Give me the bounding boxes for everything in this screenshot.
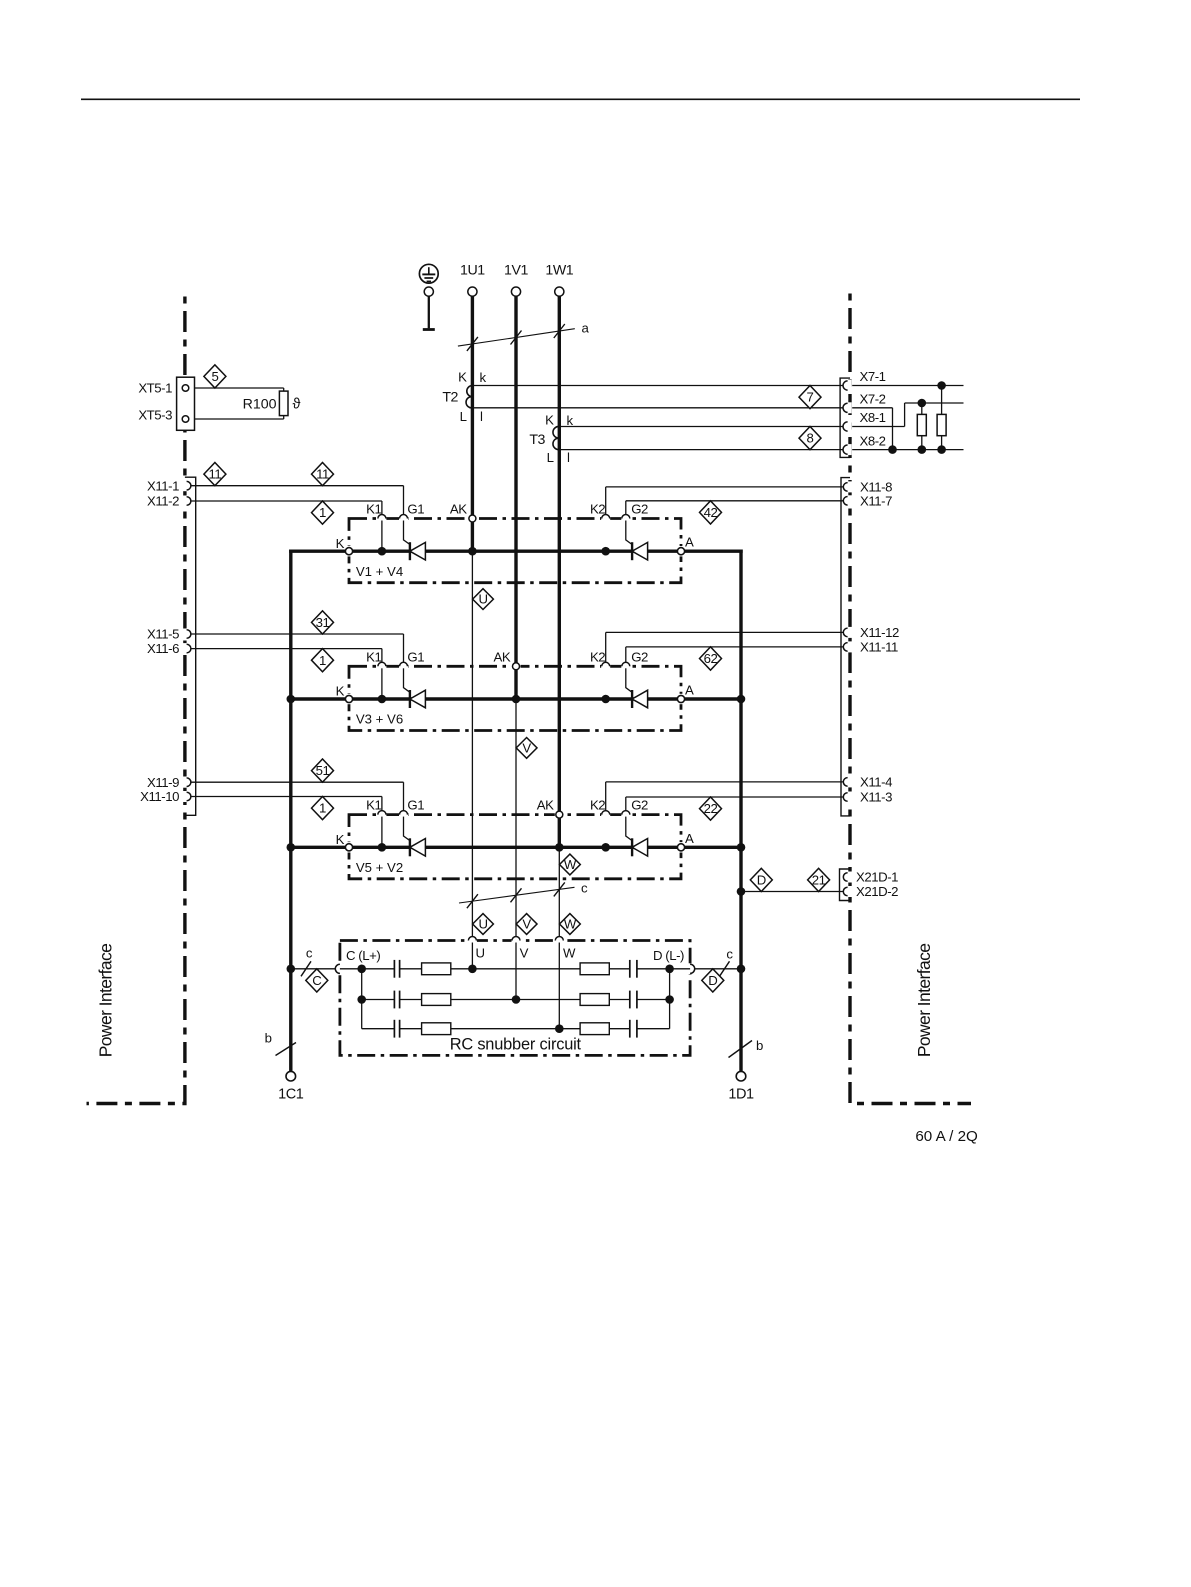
terminal X8-1 xyxy=(843,410,886,432)
snubber row 2 resistor (left) xyxy=(422,994,451,1006)
svg-text:1V1: 1V1 xyxy=(504,263,528,279)
gate lead G1 of V3 + V6 xyxy=(404,666,410,692)
svg-text:K: K xyxy=(336,536,345,551)
wire XT5-1 to R100 xyxy=(195,387,284,389)
diamond 5 xyxy=(204,365,226,388)
thyristor V3 of V3 + V6 xyxy=(410,690,426,708)
diamond 1 (module V1+V4) xyxy=(312,501,334,524)
snubber row 3 capacitor (left) xyxy=(393,1020,395,1038)
wire right DC rail (1D1) xyxy=(739,550,742,1072)
svg-text:A: A xyxy=(685,535,694,550)
thyristor V4 of V1 + V4 xyxy=(632,542,648,560)
terminal X11-11 xyxy=(843,640,898,655)
terminal X11-12 xyxy=(843,625,899,640)
svg-text:1D1: 1D1 xyxy=(728,1087,754,1103)
snubber row 1 resistor (right) xyxy=(580,963,609,975)
terminal K of V5 + V2 xyxy=(347,842,352,852)
diamond 7 xyxy=(799,386,821,409)
pin AK circle of V3 + V6 xyxy=(512,664,521,668)
current transformer T3 xyxy=(529,412,843,465)
svg-text:5: 5 xyxy=(211,369,218,384)
terminal 1V1 xyxy=(504,263,528,297)
burden resistor R1 xyxy=(917,414,926,435)
svg-text:K1: K1 xyxy=(366,502,381,517)
svg-text:b: b xyxy=(265,1031,272,1046)
wire K1 lead of V5 + V2 xyxy=(381,815,383,848)
svg-text:X11-12: X11-12 xyxy=(860,625,899,640)
connector bracket X11 right xyxy=(841,478,850,816)
diamond D (snubber) xyxy=(702,969,724,992)
snubber row 1 resistor (left) xyxy=(422,963,451,975)
svg-text:K1: K1 xyxy=(366,649,381,664)
terminal X11-10 xyxy=(140,789,191,804)
terminal K of V1 + V4 xyxy=(347,546,352,556)
wire stub A of V3 + V6 to right rail xyxy=(681,697,741,700)
svg-text:1: 1 xyxy=(319,801,326,816)
terminal D (L-) xyxy=(688,963,693,974)
svg-text:X11-8: X11-8 xyxy=(860,480,892,495)
svg-text:X21D-1: X21D-1 xyxy=(856,870,898,885)
wire K1 lead of V1 + V4 xyxy=(381,519,383,552)
snubber inner right vertical xyxy=(669,969,671,1029)
wire K1 lead of V3 + V6 xyxy=(381,666,383,699)
junction dot left rail at V3 + V6 xyxy=(287,695,296,704)
terminal K of V3 + V6 xyxy=(347,694,352,704)
svg-text:X11-4: X11-4 xyxy=(860,775,892,790)
junction dots on bus of V1 + V4 xyxy=(378,547,610,556)
wire X11-3 to G2 (module V5+V2) xyxy=(626,796,844,798)
connector bracket X11 left xyxy=(185,477,196,815)
diamond D (X21D) xyxy=(750,868,772,891)
svg-text:RC snubber circuit: RC snubber circuit xyxy=(450,1036,582,1054)
svg-text:XT5-1: XT5-1 xyxy=(138,381,172,396)
terminal X11-4 xyxy=(843,775,892,790)
burden resistor R2 xyxy=(937,414,946,435)
svg-text:AK: AK xyxy=(493,649,510,664)
gate lead G1 of V5 + V2 xyxy=(404,815,410,841)
svg-text:A: A xyxy=(685,831,694,846)
snubber row 1 capacitor (right) xyxy=(629,960,631,978)
wire right rail to X21D xyxy=(741,891,843,893)
svg-text:V: V xyxy=(522,917,531,932)
svg-text:U: U xyxy=(478,592,487,607)
terminal 1D1 xyxy=(728,1071,754,1102)
svg-text:V: V xyxy=(520,946,529,961)
svg-text:A: A xyxy=(685,683,694,698)
terminal X7-1 xyxy=(843,369,886,391)
terminal A of V3 + V6 xyxy=(679,694,684,704)
diamond 22 xyxy=(700,797,722,820)
svg-text:G2: G2 xyxy=(631,649,648,664)
svg-text:K1: K1 xyxy=(366,798,381,813)
svg-text:L: L xyxy=(547,450,554,465)
terminal X11-9 xyxy=(147,775,191,790)
wire X11-7 to G2 (module V1+V4) xyxy=(626,500,844,502)
svg-text:X11-10: X11-10 xyxy=(140,789,179,804)
node V diamond xyxy=(516,738,537,759)
svg-text:G1: G1 xyxy=(407,502,424,517)
junction dots on bus of V3 + V6 xyxy=(378,695,610,704)
svg-text:V1 + V4: V1 + V4 xyxy=(356,564,403,579)
junction dots X7/X8 network xyxy=(888,381,946,454)
connector bracket X7/X8 xyxy=(840,378,850,457)
pin labels of V5 + V2 xyxy=(336,798,694,847)
svg-text:X11-9: X11-9 xyxy=(147,775,179,790)
svg-text:X21D-2: X21D-2 xyxy=(856,884,898,899)
svg-text:1: 1 xyxy=(319,653,326,668)
svg-text:U: U xyxy=(478,917,487,932)
svg-text:K2: K2 xyxy=(590,502,605,517)
terminal block XT5 xyxy=(138,377,194,430)
snubber junction dots xyxy=(357,965,673,1033)
terminal 1C1 xyxy=(278,1071,304,1102)
group marker b (left) xyxy=(265,1031,296,1056)
svg-text:21: 21 xyxy=(812,873,826,888)
wire X11-1 to G1 (module V1+V4) xyxy=(191,485,404,487)
resistor R100 (temperature sensor) xyxy=(243,391,301,416)
snubber row 1 wire xyxy=(340,968,690,970)
terminal X7-2 xyxy=(843,392,886,414)
snubber row 2 resistor (right) xyxy=(580,994,609,1006)
svg-text:X11-1: X11-1 xyxy=(147,478,179,493)
junction dot right rail at V5 + V2 xyxy=(737,843,746,852)
svg-text:1: 1 xyxy=(319,505,326,520)
svg-text:11: 11 xyxy=(316,467,329,482)
svg-text:W: W xyxy=(564,917,577,932)
wire right rail to D (L-) xyxy=(695,968,741,970)
pin arcs K1 G1 K2 G2 of V3 + V6 xyxy=(377,662,630,668)
svg-text:T2: T2 xyxy=(442,389,458,405)
svg-text:T3: T3 xyxy=(529,432,545,448)
svg-text:8: 8 xyxy=(807,431,814,446)
svg-text:X11-11: X11-11 xyxy=(860,640,898,655)
junction dot right rail at X21D xyxy=(737,887,746,896)
svg-text:K: K xyxy=(336,684,345,699)
wire X11-9 to G1 (module V5+V2) xyxy=(191,781,404,783)
svg-text:W: W xyxy=(564,857,577,872)
wire from A of V1 + V4 to right DC rail xyxy=(681,550,743,553)
svg-text:L: L xyxy=(460,409,467,424)
RC snubber circuit enclosure (dash-dot) xyxy=(340,941,690,1056)
wire X11-5 to G1 (module V3+V6) xyxy=(191,633,404,635)
wire X11-10 to K1 (module V5+V2) xyxy=(191,796,382,798)
wire DC bus (cathode rail) of V5 + V2 xyxy=(349,846,681,849)
wire stub A of V5 + V2 to right rail xyxy=(681,846,741,849)
thyristor module V5 + V2 (dash-dot enclosure) xyxy=(349,815,681,879)
svg-text:G2: G2 xyxy=(631,502,648,517)
svg-text:1U1: 1U1 xyxy=(460,263,485,279)
svg-text:X8-2: X8-2 xyxy=(860,433,886,448)
thyristor module V1 + V4 (dash-dot enclosure) xyxy=(349,519,681,583)
wire DC bus (cathode rail) of V3 + V6 xyxy=(349,697,681,700)
terminal 1U1 xyxy=(460,263,485,297)
gate lead G2 of V3 + V6 xyxy=(626,666,632,692)
svg-text:X7-2: X7-2 xyxy=(860,392,886,407)
node W diamond xyxy=(560,854,581,875)
svg-text:11: 11 xyxy=(209,467,222,482)
svg-text:1W1: 1W1 xyxy=(545,263,573,279)
group marker a (diagonal reference line with slashes) xyxy=(458,321,590,351)
wire from K of V1 + V4 to left DC rail xyxy=(289,550,349,553)
terminal X11-3 xyxy=(843,790,892,805)
svg-text:60 A / 2Q: 60 A / 2Q xyxy=(915,1128,978,1145)
svg-text:31: 31 xyxy=(316,615,330,630)
svg-text:D: D xyxy=(757,873,766,888)
pin arcs K1 G1 K2 G2 of V1 + V4 xyxy=(377,515,630,521)
group marker c (left) xyxy=(301,945,313,976)
svg-text:1C1: 1C1 xyxy=(278,1087,304,1103)
diamond 62 xyxy=(700,647,722,670)
terminal X11-1 xyxy=(147,478,191,493)
svg-text:K: K xyxy=(336,832,345,847)
svg-text:X11-3: X11-3 xyxy=(860,790,892,805)
snubber row 1 capacitor (left) xyxy=(393,960,395,978)
terminal C (L+) xyxy=(337,963,342,974)
thyristor V1 of V1 + V4 xyxy=(410,542,426,560)
snubber row 3 wire xyxy=(362,1028,670,1030)
svg-text:62: 62 xyxy=(704,651,718,666)
snubber row 3 capacitor (right) xyxy=(629,1020,631,1038)
svg-text:R100: R100 xyxy=(243,396,277,412)
terminal X21D-2 xyxy=(843,884,898,899)
svg-text:b: b xyxy=(756,1038,763,1053)
snubber entry U xyxy=(468,939,477,943)
wire X11-12 to K2 (module V3+V6) xyxy=(606,631,844,633)
diamond C xyxy=(306,969,328,992)
terminal A of V5 + V2 xyxy=(679,842,684,852)
snubber row 3 resistor (left) xyxy=(422,1023,451,1035)
node U diamond xyxy=(473,589,494,610)
svg-text:C (L+): C (L+) xyxy=(346,948,380,963)
pin AK circle of V1 + V4 xyxy=(468,517,477,521)
wire phase W continuation (thin) xyxy=(558,847,560,1028)
diamond 31 xyxy=(312,611,334,634)
diamond 11 (first) xyxy=(204,463,226,486)
thyristor V5 of V5 + V2 xyxy=(410,838,426,856)
pin arcs K1 G1 K2 G2 of V5 + V2 xyxy=(377,811,630,817)
svg-text:Power Interface: Power Interface xyxy=(914,944,934,1058)
pin labels of V1 + V4 xyxy=(336,502,694,551)
terminal X21D-1 xyxy=(843,870,898,885)
svg-text:D: D xyxy=(708,973,717,988)
node W diamond (at snubber) xyxy=(560,914,581,935)
diamond 1 (module V5+V2) xyxy=(312,797,334,820)
svg-text:C: C xyxy=(312,973,322,988)
junction dot right rail at V3 + V6 xyxy=(737,695,746,704)
terminal 1W1 xyxy=(545,263,573,297)
wire phase U (thick) xyxy=(471,296,474,551)
snubber row 2 capacitor (right) xyxy=(629,991,631,1009)
wire left DC rail (1C1) xyxy=(289,550,292,1072)
node V diamond (at snubber) xyxy=(516,914,537,935)
svg-text:c: c xyxy=(726,947,733,962)
terminal A of V1 + V4 xyxy=(679,546,684,556)
svg-text:X11-2: X11-2 xyxy=(147,494,179,509)
thyristor module V3 + V6 (dash-dot enclosure) xyxy=(349,666,681,730)
diamond 21 xyxy=(808,868,830,891)
svg-text:V5 + V2: V5 + V2 xyxy=(356,860,403,875)
diamond 1 (module V3+V6) xyxy=(312,649,334,672)
snubber entry W xyxy=(555,939,564,943)
svg-text:22: 22 xyxy=(704,801,718,816)
svg-text:51: 51 xyxy=(316,763,330,778)
wire phase U continuation (thin) xyxy=(471,551,473,969)
PE ground symbol xyxy=(419,264,438,329)
group marker c (diagonal reference line with slashes) xyxy=(459,880,588,908)
svg-text:X7-1: X7-1 xyxy=(860,369,886,384)
node U diamond (at snubber) xyxy=(473,914,494,935)
diamond 8 xyxy=(799,427,821,450)
svg-text:K2: K2 xyxy=(590,798,605,813)
svg-text:k: k xyxy=(480,370,487,385)
svg-text:Power Interface: Power Interface xyxy=(96,944,116,1058)
terminal X11-6 xyxy=(147,641,191,656)
terminal X11-8 xyxy=(843,480,892,495)
wire X11-11 to G2 (module V3+V6) xyxy=(626,646,844,648)
pin AK circle of V5 + V2 xyxy=(555,813,564,817)
svg-text:G1: G1 xyxy=(407,798,424,813)
burden resistor network wires xyxy=(852,386,963,450)
junction dot left rail at V5 + V2 xyxy=(287,843,296,852)
svg-text:a: a xyxy=(582,321,590,336)
left Power Interface boundary (dash-dot) xyxy=(87,297,185,1104)
svg-text:X11-6: X11-6 xyxy=(147,641,179,656)
svg-text:U: U xyxy=(476,946,485,961)
junction dot right rail snubber xyxy=(737,965,746,974)
svg-text:G1: G1 xyxy=(407,649,424,664)
wire X11-2 to K1 (module V1+V4) xyxy=(191,500,382,502)
wire stub left rail to K of V3 + V6 xyxy=(291,697,349,700)
page header rule xyxy=(81,98,1080,100)
svg-text:ϑ: ϑ xyxy=(293,396,301,412)
thyristor V6 of V3 + V6 xyxy=(632,690,648,708)
junction dots on bus of V5 + V2 xyxy=(378,843,610,852)
gate lead G1 of V1 + V4 xyxy=(404,519,410,545)
svg-text:c: c xyxy=(306,945,313,960)
snubber entry V xyxy=(512,939,521,943)
svg-text:42: 42 xyxy=(704,505,718,520)
svg-text:X11-7: X11-7 xyxy=(860,493,892,508)
group marker b (right) xyxy=(729,1038,764,1058)
terminal X11-2 xyxy=(147,494,191,509)
snubber row 3 resistor (right) xyxy=(580,1023,609,1035)
wire X11-8 to K2 (module V1+V4) xyxy=(606,486,844,488)
junction dot left rail snubber xyxy=(287,965,296,974)
diamond 42 xyxy=(700,501,722,524)
wire phase V continuation (thin) xyxy=(515,697,517,999)
svg-text:c: c xyxy=(581,880,588,895)
right Power Interface boundary (dash-dot) xyxy=(850,294,971,1104)
pin labels of V3 + V6 xyxy=(336,649,694,698)
svg-text:G2: G2 xyxy=(631,798,648,813)
gate lead G2 of V5 + V2 xyxy=(626,815,632,841)
wire stub left rail to K of V5 + V2 xyxy=(291,846,349,849)
gate lead G2 of V1 + V4 xyxy=(626,519,632,545)
svg-text:AK: AK xyxy=(537,798,554,813)
svg-text:X11-5: X11-5 xyxy=(147,627,179,642)
wire phase W (thick) xyxy=(558,296,561,847)
svg-text:AK: AK xyxy=(450,502,467,517)
snubber row 2 wire xyxy=(362,999,670,1001)
wire X11-6 to K1 (module V3+V6) xyxy=(191,648,382,650)
wire X11-4 to K2 (module V5+V2) xyxy=(606,781,844,783)
terminal X11-7 xyxy=(843,493,892,508)
diamond 51 xyxy=(312,759,334,782)
svg-text:D (L-): D (L-) xyxy=(653,948,684,963)
connector bracket X21D xyxy=(840,869,851,901)
current transformer T2 xyxy=(442,370,843,425)
snubber inner left vertical xyxy=(361,969,363,1029)
wire XT5-3 to R100 xyxy=(195,418,284,420)
terminal X11-5 xyxy=(147,627,191,642)
svg-text:K: K xyxy=(458,370,467,385)
svg-text:K: K xyxy=(545,412,554,427)
svg-text:V: V xyxy=(522,741,531,756)
snubber row 2 capacitor (left) xyxy=(393,991,395,1009)
wire left rail to C (L+) xyxy=(291,968,335,970)
diamond 11 (second) xyxy=(312,463,334,486)
svg-text:V3 + V6: V3 + V6 xyxy=(356,712,403,727)
wire DC bus (cathode rail) of V1 + V4 xyxy=(349,550,681,553)
svg-text:7: 7 xyxy=(807,390,814,405)
group marker c (right) xyxy=(720,947,734,977)
terminal X8-2 xyxy=(843,433,886,455)
svg-text:W: W xyxy=(563,946,576,961)
svg-text:X8-1: X8-1 xyxy=(860,410,886,425)
svg-text:k: k xyxy=(567,413,574,428)
svg-text:XT5-3: XT5-3 xyxy=(138,407,172,422)
thyristor V2 of V5 + V2 xyxy=(632,838,648,856)
svg-text:K2: K2 xyxy=(590,649,605,664)
wire phase V (thick) xyxy=(514,296,517,697)
